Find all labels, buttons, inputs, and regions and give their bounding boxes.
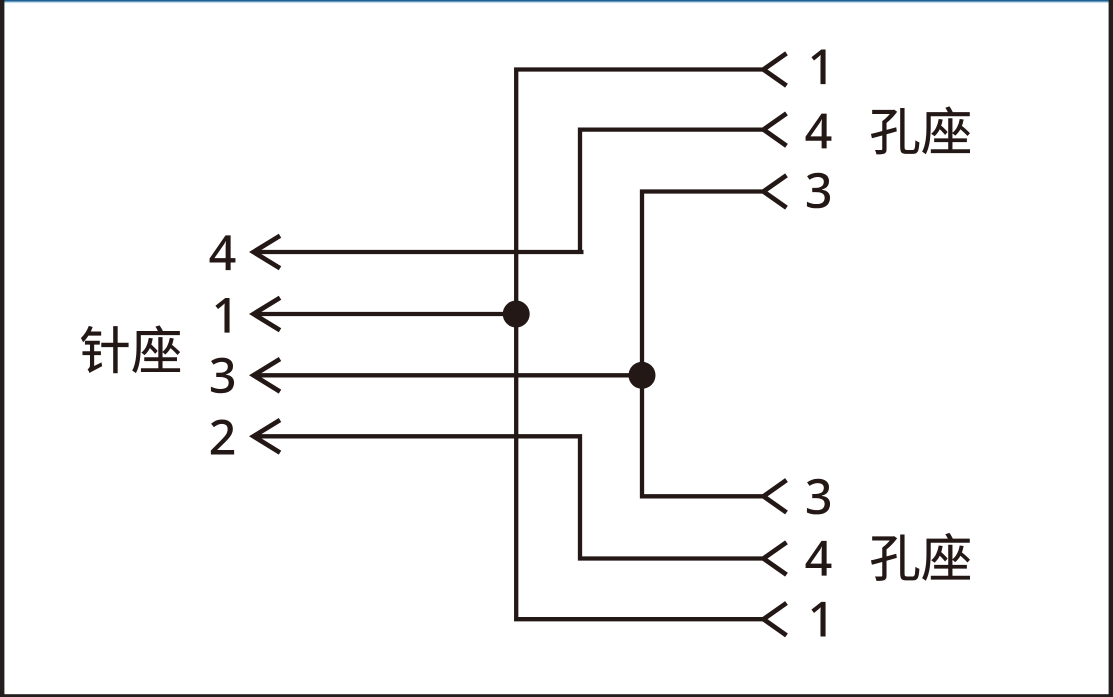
pin number 1 (top socket side) — [811, 49, 825, 84]
arrowhead: header pin 4 — [254, 236, 281, 269]
socket contact fork: top socket pin 3 — [764, 175, 787, 207]
page left border — [0, 0, 4, 697]
pin number 4 (bottom socket side) — [806, 541, 832, 576]
socket contact fork: top socket pin 4 — [764, 113, 787, 145]
pin number 1 (bottom socket side) — [811, 602, 825, 637]
socket contact fork: bottom socket pin 3 — [764, 480, 787, 512]
pin number 3 (bottom socket side) — [807, 479, 830, 515]
page top blue border — [0, 0, 1113, 4]
wire: top socket 4 to header pin 4 — [253, 130, 763, 252]
pin number 4 (top socket side) — [806, 114, 832, 149]
wire: pin3 net (top socket 3 - vertical bus - bottom socket 3) — [642, 192, 763, 497]
socket contact fork: bottom socket pin 1 — [764, 603, 787, 635]
socket contact fork: bottom socket pin 4 — [764, 542, 787, 574]
pin number 3 (top socket side) — [807, 173, 830, 209]
label: 孔座 (socket, bottom) — [871, 533, 970, 581]
page right border — [1109, 0, 1113, 697]
junction dot: pin3 net — [629, 362, 656, 389]
pin number 3 (header side) — [211, 358, 234, 394]
wire: pin1 net (top socket 1 - vertical bus - bottom socket 1) — [516, 70, 763, 620]
arrowhead: header pin 1 — [254, 298, 281, 331]
arrowhead: header pin 3 — [254, 359, 281, 392]
socket contact fork: top socket pin 1 — [764, 53, 787, 85]
arrowhead: header pin 2 — [254, 420, 281, 453]
wire: header pin3 lead to junction — [253, 373, 642, 377]
junction dot: pin1 net — [503, 301, 530, 328]
label: 孔座 (socket, top) — [871, 106, 970, 154]
pin number 2 (header side) — [211, 419, 234, 454]
wire: header pin1 lead to junction — [253, 312, 516, 316]
wire: header pin 2 to bottom socket 4 — [253, 436, 763, 558]
pin number 1 (header side) — [215, 298, 229, 333]
pin number 4 (header side) — [210, 235, 236, 270]
label: 针座 (pin header) — [81, 325, 180, 373]
page bottom border — [0, 694, 1113, 697]
